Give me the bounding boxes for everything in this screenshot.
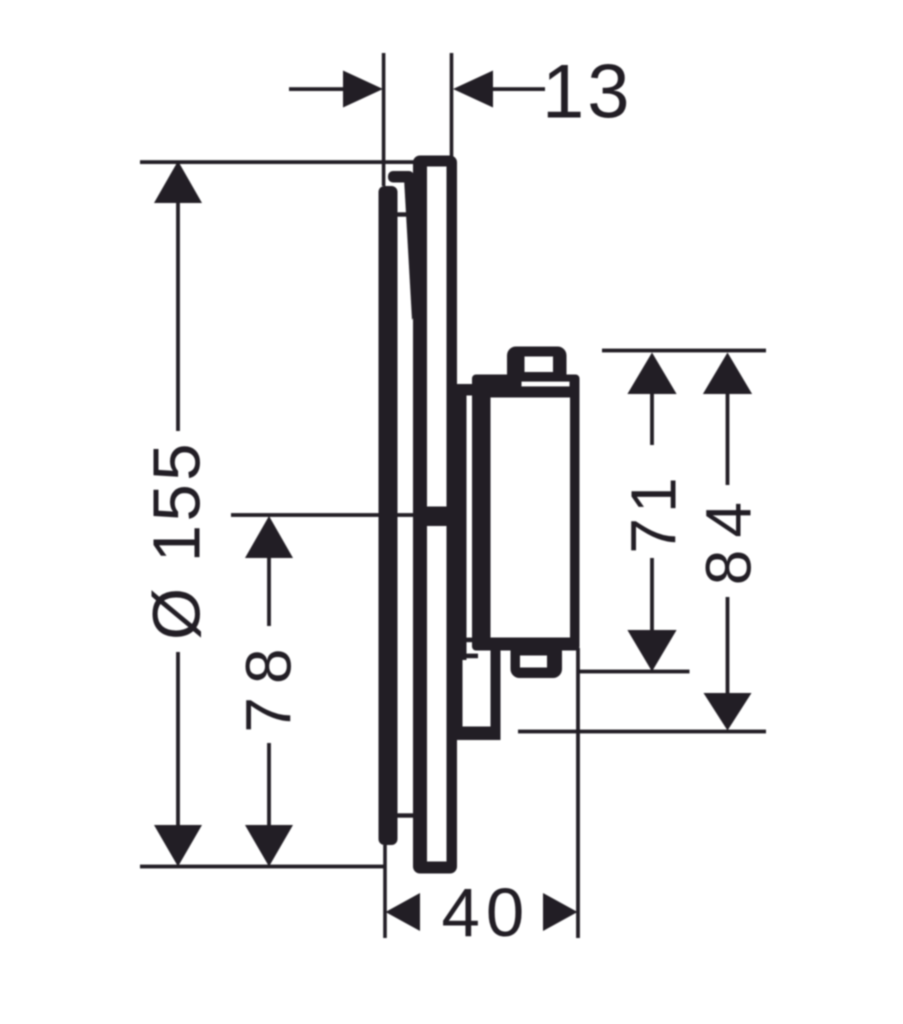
wire: top extension line for dims 71 and 84 xyxy=(602,349,766,353)
valve body housing xyxy=(472,375,580,651)
wire: dim 155 upper line xyxy=(176,200,180,431)
front plate bar xyxy=(379,186,398,845)
wire: dim 155 lower line xyxy=(176,652,180,832)
basic-set edge bar xyxy=(456,390,467,660)
flange highlight slit xyxy=(522,382,570,387)
sleeve taper edge xyxy=(404,176,417,320)
node arrow-down of dim 155 xyxy=(154,825,202,867)
wire: top extension line for dim 78 xyxy=(231,513,455,517)
bracket bottom bar xyxy=(455,727,501,741)
bracket tick lower xyxy=(460,654,478,659)
svg-text:71: 71 xyxy=(617,472,689,553)
node arrow-up of dim 155 xyxy=(154,161,202,203)
node arrow-up of dim 78 xyxy=(245,516,293,558)
body bottom nub xyxy=(511,650,563,678)
wire: dim 78 upper line xyxy=(267,555,271,626)
plate mid seam bridge xyxy=(426,507,447,527)
bracket tick upper xyxy=(460,638,478,643)
escutcheon plate outline xyxy=(413,156,457,874)
wire: bottom extension line for dim 71 xyxy=(578,670,690,674)
bracket left wall thickening xyxy=(454,634,463,740)
node arrow-left of dim 13 xyxy=(453,71,493,108)
svg-text:Ø 155: Ø 155 xyxy=(140,440,215,640)
node arrow-up of dim 71 xyxy=(627,353,676,395)
node arrow-left of dim 40 xyxy=(386,893,421,931)
node arrow-down of dim 78 xyxy=(245,825,293,867)
sleeve seam tick upper xyxy=(396,212,414,216)
connector plate-to-body xyxy=(455,384,480,396)
node arrow-down of dim 71 xyxy=(627,630,676,672)
node arrow-up of dim 84 xyxy=(703,353,752,395)
wire: extension line vertical right of dim 13 xyxy=(450,53,454,163)
wire: dim 84 upper line xyxy=(726,391,730,485)
wire: extension line vertical left of dim 13 xyxy=(382,53,386,186)
wire: bottom extension line for dim 84 xyxy=(518,730,766,734)
node arrow-down of dim 84 xyxy=(704,693,752,731)
sleeve top cap xyxy=(388,171,414,183)
wire: bottom extension line for dia 155 xyxy=(140,865,386,869)
svg-text:84: 84 xyxy=(693,490,765,585)
svg-text:78: 78 xyxy=(233,635,305,732)
svg-text:13: 13 xyxy=(542,50,633,135)
wire: dim 71 lower line xyxy=(650,558,654,632)
wire: dim 71 upper line xyxy=(650,391,654,445)
node arrow-right of dim 40 xyxy=(543,893,578,931)
wire: dim 78 lower line xyxy=(267,743,271,833)
sleeve seam tick lower xyxy=(396,813,414,817)
valve body cap xyxy=(507,347,567,379)
wire: dim 84 lower line xyxy=(726,597,730,695)
wire: right extension line for dim 40 xyxy=(576,648,580,938)
node arrow-right of dim 13 xyxy=(343,71,383,108)
svg-text:40: 40 xyxy=(442,874,531,951)
wire: left extension line for dim 40 xyxy=(383,845,387,938)
wire: top extension line for dia 155 xyxy=(140,160,415,164)
bracket right wall xyxy=(491,648,501,740)
wire: dim 13 left leader line xyxy=(289,87,345,91)
wire: dim 13 right leader line xyxy=(492,87,545,91)
